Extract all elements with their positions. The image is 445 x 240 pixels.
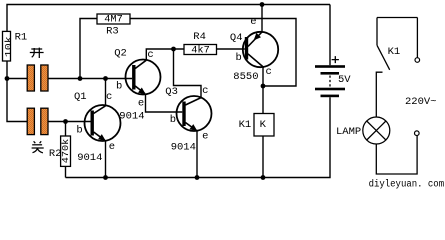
node Q4 collector / feedback junction	[261, 84, 266, 89]
svg-text:b: b	[76, 124, 82, 136]
resistor R1 10k	[3, 31, 28, 61]
wire switch to lamp	[376, 72, 382, 117]
wire OFF row to Q1 base	[48, 121, 91, 123]
node Q1 emitter on bottom rail	[103, 175, 108, 180]
svg-text:c: c	[202, 85, 208, 97]
svg-text:9014: 9014	[119, 111, 144, 123]
transistor Q4 8550 PNP	[230, 16, 278, 83]
svg-text:R1: R1	[15, 31, 28, 43]
lamp LAMP	[363, 117, 390, 144]
svg-text:c: c	[266, 66, 272, 78]
transistor Q1 9014 NPN	[74, 91, 121, 164]
wire mains loop top	[377, 17, 417, 19]
svg-text:e: e	[109, 141, 115, 153]
wire Q4 emitter from +rail	[261, 5, 263, 33]
svg-text:Q2: Q2	[114, 47, 127, 59]
svg-text:b: b	[116, 81, 122, 93]
svg-text:Q1: Q1	[74, 91, 87, 103]
svg-text:e: e	[250, 16, 256, 28]
terminal mains upper	[415, 58, 420, 63]
svg-text:R4: R4	[193, 31, 206, 43]
svg-text:9014: 9014	[171, 142, 196, 154]
wire relay coil to bottom rail	[262, 136, 264, 178]
node R1/ON-plate junction	[5, 76, 10, 81]
svg-text:10k: 10k	[3, 36, 14, 57]
wire R4 node down to Q3 collector	[174, 49, 202, 97]
resistor R4 4k7	[184, 31, 217, 56]
wire ON row left segment	[7, 78, 27, 80]
transistor Q2 9014 NPN	[114, 47, 160, 122]
node Q4 emitter on +rail	[260, 2, 265, 7]
svg-text:4k7: 4k7	[191, 44, 210, 56]
svg-text:R3: R3	[106, 25, 119, 37]
svg-text:220V~: 220V~	[405, 96, 437, 108]
wire mains right drop to terminal	[416, 18, 418, 58]
wire lamp bottom loop to mains terminal	[376, 136, 417, 174]
svg-text:K1: K1	[239, 119, 252, 131]
wire ground bottom rail	[66, 97, 331, 177]
wire R2 bottom lead	[65, 166, 67, 177]
wire Q1 collector	[105, 79, 107, 106]
node relay on bottom rail	[261, 175, 266, 180]
svg-text:Q4: Q4	[230, 32, 243, 44]
svg-text:c: c	[106, 91, 112, 103]
node Q1 collector / Q2 base junction	[103, 76, 108, 81]
wire Q1 emitter stub	[105, 141, 107, 178]
svg-text:4M7: 4M7	[104, 14, 123, 26]
svg-text:diyleyuan. com: diyleyuan. com	[369, 179, 445, 190]
wire +5V top rail	[7, 5, 330, 32]
svg-text:e: e	[138, 98, 144, 110]
battery B1 5V	[315, 56, 351, 97]
touch plates OFF (guan)	[27, 108, 48, 134]
wire R4 to Q4 base	[217, 48, 245, 50]
svg-text:8550: 8550	[233, 71, 258, 83]
svg-text:9014: 9014	[77, 152, 102, 164]
wire Q2 emitter to Q3 base	[146, 94, 183, 112]
svg-text:K1: K1	[388, 46, 401, 58]
terminal mains lower	[415, 131, 420, 136]
svg-text:c: c	[147, 49, 153, 61]
label guan (OFF) glyph	[32, 141, 44, 153]
wire R3 left riser	[80, 19, 97, 79]
svg-text:5V: 5V	[338, 74, 351, 86]
node R3 riser junction	[78, 76, 83, 81]
relay coil K1	[239, 114, 274, 137]
wire Q4 collector to relay coil	[262, 68, 264, 114]
node Q3 emitter on bottom rail	[195, 175, 200, 180]
wire Q2 collector to R4 node	[146, 49, 184, 60]
svg-text:b: b	[170, 114, 176, 126]
node R2 / Q1 base junction	[63, 119, 68, 124]
touch plates ON (kai)	[27, 65, 48, 91]
label kai (ON) glyph	[30, 48, 44, 58]
svg-text:e: e	[202, 130, 208, 142]
wire R1 bottom to touch-plate ON row	[7, 61, 27, 122]
svg-text:LAMP: LAMP	[336, 126, 361, 138]
transistor Q3 9014 NPN	[165, 85, 211, 154]
svg-text:Q3: Q3	[165, 86, 178, 98]
wire R2 top lead	[65, 122, 67, 137]
svg-text:470k: 470k	[60, 138, 71, 163]
node Q2/Q3 collector R4 junction	[171, 47, 176, 52]
wire R3 right feedback loop to Q4 collector node	[130, 19, 296, 87]
svg-text:K: K	[260, 119, 267, 131]
svg-text:R2: R2	[49, 148, 62, 160]
wire ON row right segment to Q2 base	[48, 78, 132, 80]
wire mains left drop to switch	[376, 18, 378, 46]
resistor R2 470k	[49, 136, 71, 166]
resistor R3 4M7	[97, 14, 130, 38]
wire battery positive riser	[329, 5, 331, 66]
wire Q3 emitter stub	[196, 131, 198, 178]
switch K1 contact blade	[377, 45, 390, 70]
svg-text:b: b	[236, 52, 242, 64]
